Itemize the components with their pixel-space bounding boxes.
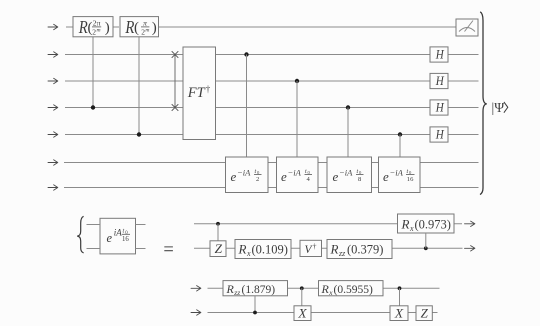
wire q2 segments	[65, 80, 479, 82]
gate H on q2	[430, 73, 448, 88]
svg-text:zz: zz	[338, 249, 346, 258]
svg-text:H: H	[435, 74, 445, 88]
gate H on q4	[430, 127, 448, 142]
svg-text:16: 16	[407, 176, 414, 183]
svg-text:): )	[105, 20, 110, 36]
gate exp(-iA t0/2) box	[226, 157, 269, 193]
wire q6 segments	[64, 187, 479, 189]
svg-text:x: x	[409, 224, 414, 233]
gate exp(-iA t0/16) box	[379, 157, 421, 193]
svg-text:R: R	[238, 242, 247, 257]
gate V-dagger box	[300, 240, 322, 256]
svg-text:R: R	[321, 282, 330, 296]
svg-text:e: e	[383, 169, 389, 184]
control dot on q1 for exp(-iA t0/2)	[244, 52, 248, 56]
svg-text:Z: Z	[215, 241, 223, 256]
svg-text:−iA: −iA	[390, 168, 404, 178]
gate Z box	[210, 241, 226, 257]
svg-text:R: R	[330, 242, 339, 257]
control dot on q4 for R(pi/2^m)	[137, 132, 141, 136]
swap cross on q3	[172, 104, 179, 111]
svg-text:e: e	[107, 231, 113, 245]
svg-text:(0.5955): (0.5955)	[334, 284, 373, 296]
svg-text:2π: 2π	[93, 18, 101, 27]
right brace	[480, 12, 487, 195]
gate Rx(0.5955) box	[319, 281, 384, 298]
input arrow wire q0	[48, 24, 58, 29]
svg-text:(0.973): (0.973)	[415, 217, 451, 231]
svg-text:FT: FT	[187, 85, 206, 101]
svg-text:†: †	[313, 242, 317, 251]
svg-text:R: R	[125, 17, 135, 37]
gate H on q1	[430, 47, 448, 62]
control line b0 to second X	[399, 288, 401, 306]
gate H on q3	[430, 100, 448, 115]
definition top wire segments	[194, 223, 462, 225]
control dot on b0 for second X	[398, 286, 402, 290]
gate R(pi/2^m) box	[120, 17, 159, 38]
svg-text:R: R	[401, 216, 410, 231]
gate Rzz(0.379) box	[327, 240, 392, 259]
wire q5 segments	[64, 162, 479, 164]
gate Rzz(1.879) box	[223, 281, 288, 298]
svg-text:π: π	[143, 18, 147, 27]
svg-text:H: H	[435, 127, 445, 141]
input arrow bottom wire b0	[191, 286, 201, 291]
wire q0 segments	[66, 26, 456, 28]
svg-text:|Ψ: |Ψ	[492, 100, 505, 115]
stub wires of defined gate	[87, 225, 146, 249]
bottom wire b1 segments	[208, 312, 438, 314]
gate X box on b1	[294, 306, 311, 321]
input arrow wire q6	[48, 185, 58, 190]
control dot on b1 for Rzz(1.879)	[253, 311, 257, 315]
svg-text:X: X	[297, 306, 308, 320]
gate exp(-iA t0/8) box	[327, 157, 372, 193]
gate Rx(0.973) box	[398, 214, 455, 233]
svg-text:Z: Z	[421, 306, 429, 320]
input arrow bottom wire b1	[191, 310, 201, 315]
input arrow wire q5	[48, 160, 58, 165]
control dot on q3 for exp(-iA t0/8)	[346, 105, 350, 109]
swap vertical line q1-q3	[174, 55, 176, 108]
svg-text:zz: zz	[233, 288, 240, 297]
svg-text:(: (	[134, 20, 139, 36]
svg-text:e: e	[281, 169, 287, 184]
gate X box second on b1	[390, 306, 408, 321]
svg-text:−iA: −iA	[237, 168, 251, 178]
gate Z box on b1	[416, 306, 432, 321]
svg-text:2: 2	[256, 176, 259, 183]
control line q3 to exp(-iA t0/8)	[347, 108, 349, 158]
input arrow wire q1	[48, 52, 58, 57]
svg-text:−iA: −iA	[288, 168, 302, 178]
control line to Z gate	[217, 224, 219, 241]
control line q4 to exp(-iA t0/16)	[399, 135, 401, 158]
wire q3 segments	[65, 107, 479, 109]
control dot on q2 for exp(-iA t0/4)	[295, 79, 299, 83]
control line to Rx(0.973)	[425, 233, 427, 248]
control line b0 to X	[301, 288, 303, 306]
svg-text:16: 16	[122, 236, 129, 243]
svg-text:R: R	[78, 17, 88, 37]
control line Rzz(1.879) to b1	[254, 296, 256, 313]
svg-text:R: R	[226, 282, 235, 296]
gate exp(-iA t0/4) box	[277, 157, 319, 193]
svg-text:x: x	[246, 249, 251, 258]
output arrow definition bottom wire	[465, 246, 475, 251]
control dot on bottom wire for Rx(0.973)	[424, 246, 428, 250]
output arrow definition top wire	[465, 221, 475, 226]
gate FT-dagger box	[183, 47, 216, 140]
svg-text:e: e	[333, 169, 339, 184]
control dot on q4 for exp(-iA t0/16)	[398, 132, 402, 136]
input arrow wire q2	[48, 78, 58, 83]
svg-text:m: m	[97, 28, 101, 34]
svg-text:−iA: −iA	[339, 168, 353, 178]
left brace of definition	[77, 216, 83, 253]
svg-text:X: X	[394, 306, 405, 320]
definition bottom wire segments	[194, 247, 463, 249]
measurement meter on q0	[456, 19, 478, 36]
bottom wire b0 segments	[208, 287, 440, 289]
svg-text:(1.879): (1.879)	[242, 284, 276, 296]
svg-text:H: H	[435, 47, 445, 61]
input arrow wire q4	[48, 132, 58, 137]
svg-text:m: m	[145, 28, 149, 34]
svg-text:(0.109): (0.109)	[252, 243, 288, 257]
svg-text:H: H	[435, 100, 445, 114]
svg-text:t: t	[123, 228, 125, 235]
svg-text:†: †	[206, 84, 211, 94]
control line from R(2pi/2^m) to q3	[92, 37, 94, 108]
svg-text:(0.379): (0.379)	[347, 243, 383, 257]
control line q2 to exp(-iA t0/4)	[296, 81, 298, 157]
equals sign	[164, 247, 173, 251]
control dot on q3 for R(2pi/2^m)	[91, 105, 95, 109]
gate R(2pi/2^m) box	[73, 17, 113, 38]
control line q1 to exp(-iA t0/2)	[246, 55, 248, 158]
control dot on top wire for Z	[216, 222, 220, 226]
defined gate exp(iA t0/16) box	[100, 218, 136, 254]
control dot on b0 for X	[300, 286, 304, 290]
gate Rx(0.109) box	[235, 240, 291, 259]
wire q1 segments	[65, 54, 479, 56]
control line from R(pi/2^m) to q4	[138, 37, 140, 135]
input arrow wire q3	[48, 105, 58, 110]
svg-text:): )	[152, 20, 157, 36]
state label |Psi>	[492, 100, 508, 115]
swap cross on q1	[172, 51, 179, 58]
svg-text:e: e	[231, 169, 237, 184]
wire q4 segments	[65, 134, 479, 136]
